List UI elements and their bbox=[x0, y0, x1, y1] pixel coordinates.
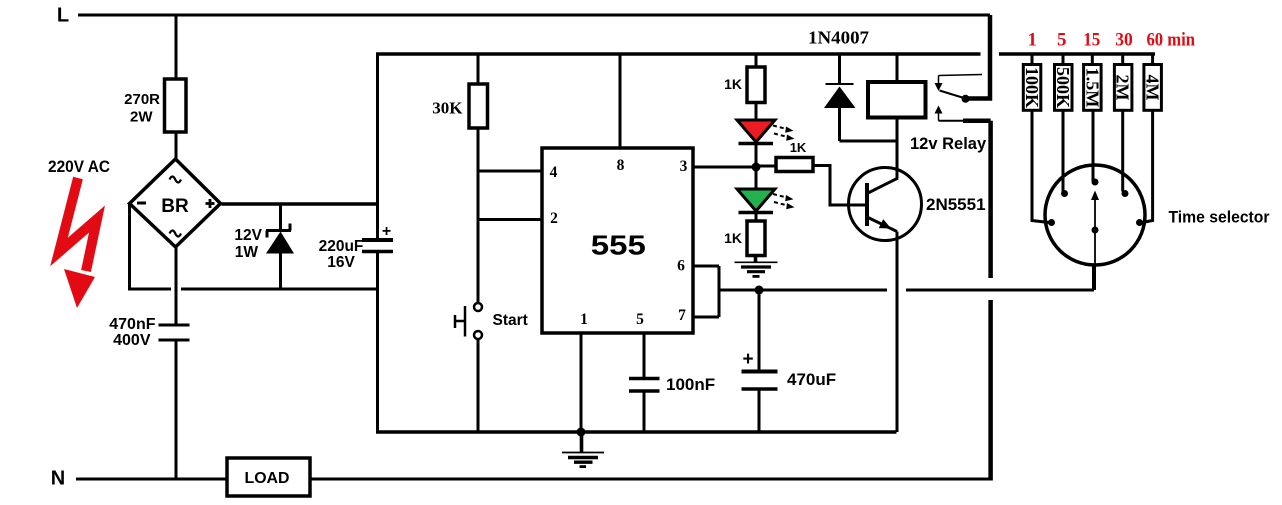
wire pin6 bbox=[693, 265, 719, 268]
svg-text:BR: BR bbox=[161, 196, 189, 217]
capacitor 470nF bbox=[159, 324, 190, 327]
resistor 500K bbox=[1053, 54, 1073, 192]
svg-text:30K: 30K bbox=[432, 99, 463, 118]
svg-text:555: 555 bbox=[591, 230, 646, 261]
wire relay to collector bbox=[896, 118, 899, 179]
wire rail to 1K red bbox=[755, 54, 758, 67]
svg-text:1N4007: 1N4007 bbox=[808, 28, 869, 48]
wire box left edge upper (to +rail) bbox=[376, 54, 379, 240]
wire pin7 bbox=[693, 316, 719, 319]
resistor 1K red led bbox=[747, 67, 765, 103]
svg-text:15: 15 bbox=[1083, 30, 1100, 51]
wire pin4 bbox=[478, 170, 542, 173]
wire switch to ground rail bbox=[477, 339, 480, 432]
wire node to 1K base resistor bbox=[756, 165, 776, 168]
svg-text:5: 5 bbox=[636, 311, 644, 328]
wire threshold run left bbox=[719, 289, 887, 292]
svg-text:3: 3 bbox=[680, 158, 688, 175]
label ~ top bbox=[170, 177, 182, 183]
wire bridge minus down bbox=[128, 204, 131, 290]
label plus bbox=[206, 202, 215, 205]
svg-text:5: 5 bbox=[1057, 30, 1067, 51]
relay coil box bbox=[868, 82, 926, 118]
wire L drop to relay pole bbox=[966, 15, 990, 99]
wire 1K to base bbox=[813, 166, 866, 206]
wire +12V top rail bbox=[376, 52, 981, 56]
svg-text:Time selector: Time selector bbox=[1169, 208, 1270, 227]
svg-text:12v Relay: 12v Relay bbox=[910, 135, 987, 153]
relay pole dot bbox=[962, 95, 970, 103]
wiper pivot dot bbox=[1092, 227, 1099, 234]
op-amp U1 555 IC bbox=[542, 148, 693, 333]
wire rail to 30K bbox=[477, 54, 480, 84]
wire red LED to node bbox=[755, 145, 758, 167]
wire box left edge lower bbox=[376, 252, 379, 432]
bridge rectifier BR bbox=[130, 159, 221, 247]
LED green D2 bbox=[737, 189, 775, 213]
LED red arrows bbox=[773, 126, 787, 137]
svg-text:6: 6 bbox=[677, 258, 685, 275]
wire drop from L to 270R bbox=[175, 15, 178, 79]
svg-text:2N5551: 2N5551 bbox=[926, 195, 986, 214]
svg-text:L: L bbox=[57, 5, 69, 27]
svg-text:270R: 270R bbox=[124, 91, 160, 108]
relay switch contacts bbox=[935, 75, 991, 121]
relay NC contact arrow bbox=[935, 83, 943, 91]
wire 30K down to switch bbox=[477, 128, 480, 303]
svg-text:1: 1 bbox=[580, 311, 588, 328]
transistor Q1 2N5551 bbox=[849, 168, 922, 241]
svg-text:470nF: 470nF bbox=[109, 316, 155, 333]
wire emitter to ground rail bbox=[896, 232, 899, 433]
label ~ bottom bbox=[170, 231, 182, 237]
wire pin2 bbox=[478, 218, 542, 221]
svg-text:+: + bbox=[382, 223, 391, 240]
wire L top rail bbox=[78, 14, 990, 17]
wire 1K to red LED bbox=[755, 103, 758, 120]
resistor 1K base bbox=[776, 158, 813, 172]
svg-text:12V: 12V bbox=[234, 227, 262, 244]
resistor 4M bbox=[1142, 54, 1163, 223]
node pin1 ground junction bbox=[577, 428, 586, 437]
wire pin3 bbox=[693, 166, 756, 169]
zener diode 12V 1W bbox=[266, 204, 294, 289]
wire negative rail right part bbox=[181, 288, 378, 291]
ground symbol led bbox=[735, 262, 778, 276]
resistor 100K bbox=[1022, 54, 1049, 223]
wire bridge bottom down bbox=[175, 246, 178, 324]
svg-text:2W: 2W bbox=[130, 109, 153, 126]
svg-text:8: 8 bbox=[617, 157, 625, 174]
node pin3 junction bbox=[752, 163, 761, 172]
svg-text:1: 1 bbox=[1027, 30, 1037, 51]
wire 470nF to N bbox=[175, 342, 178, 480]
wire negative rail left part bbox=[128, 288, 171, 291]
resistor 1.5M bbox=[1082, 54, 1102, 181]
wiper to edge bbox=[1094, 233, 1096, 264]
lightning bolt arrow bbox=[59, 178, 97, 308]
label minus bbox=[137, 202, 146, 205]
wire riser to selector bbox=[1092, 264, 1096, 290]
wire node to green LED bbox=[755, 167, 758, 189]
svg-text:1K: 1K bbox=[724, 230, 742, 246]
node 470uF junction bbox=[755, 286, 764, 295]
svg-text:2: 2 bbox=[550, 210, 558, 227]
relay lever bbox=[940, 91, 966, 99]
svg-text:1K: 1K bbox=[724, 76, 742, 92]
svg-text:4: 4 bbox=[550, 164, 558, 181]
wire 270R to bridge bbox=[175, 132, 178, 160]
svg-text:500K: 500K bbox=[1053, 67, 1073, 108]
wire bridge plus rail bbox=[222, 202, 378, 206]
resistor 1K green bbox=[747, 221, 765, 256]
svg-text:4M: 4M bbox=[1143, 75, 1163, 101]
wire N to LOAD bbox=[76, 478, 227, 481]
wire NO contact down upper bbox=[988, 121, 993, 278]
wire threshold run right bbox=[906, 289, 1094, 292]
resistor 2M bbox=[1113, 54, 1133, 192]
wire ground bottom rail bbox=[376, 430, 897, 434]
svg-text:100K: 100K bbox=[1022, 67, 1042, 108]
svg-text:1K: 1K bbox=[790, 140, 807, 155]
diode 1N4007 bbox=[824, 54, 897, 141]
capacitor 100nF bbox=[629, 377, 660, 381]
svg-text:2M: 2M bbox=[1113, 75, 1133, 101]
svg-text:16V: 16V bbox=[327, 254, 355, 271]
svg-text:+: + bbox=[742, 349, 753, 370]
svg-text:60 min: 60 min bbox=[1147, 30, 1196, 51]
wire rail to relay coil bbox=[896, 54, 899, 82]
wire 1K to ground symbol bbox=[754, 256, 758, 263]
contact dots bbox=[1048, 219, 1055, 226]
svg-text:100nF: 100nF bbox=[666, 375, 715, 394]
wire NO contact down lower bbox=[988, 300, 993, 481]
svg-text:N: N bbox=[51, 468, 65, 490]
switch Start bbox=[455, 303, 483, 339]
resistor 270R bbox=[165, 79, 187, 132]
wire pin8 to rail bbox=[619, 54, 622, 148]
wire pin1 to ground bbox=[580, 333, 583, 432]
resistor 30K bbox=[469, 84, 488, 128]
LED red D1 bbox=[737, 120, 775, 144]
capacitor 220uF 16V bbox=[362, 238, 393, 242]
wire LOAD to right riser bbox=[310, 478, 991, 481]
capacitor 470uF bbox=[742, 290, 778, 432]
svg-text:220V AC: 220V AC bbox=[48, 157, 110, 176]
svg-text:Start: Start bbox=[493, 312, 528, 329]
svg-text:470uF: 470uF bbox=[787, 370, 836, 389]
LED green arrows bbox=[773, 194, 787, 205]
svg-text:220uF: 220uF bbox=[319, 238, 364, 255]
wire 100nF to rail bbox=[643, 392, 646, 432]
wire timing rail bbox=[999, 52, 1155, 56]
svg-text:1W: 1W bbox=[235, 244, 259, 261]
svg-text:LOAD: LOAD bbox=[245, 470, 290, 487]
svg-text:400V: 400V bbox=[113, 332, 151, 349]
ground symbol main bbox=[562, 432, 604, 467]
load box bbox=[227, 458, 310, 496]
svg-text:30: 30 bbox=[1115, 30, 1133, 51]
relay NO contact arrow bbox=[935, 106, 943, 114]
wiper arrow bbox=[1094, 199, 1096, 230]
wire pin5 down bbox=[643, 333, 646, 377]
wire green LED to 1K bbox=[755, 214, 758, 221]
wire pin6-7 link bbox=[718, 266, 721, 317]
svg-text:7: 7 bbox=[678, 307, 686, 324]
rotary switch time selector bbox=[1045, 165, 1145, 265]
svg-text:1.5M: 1.5M bbox=[1082, 68, 1102, 108]
